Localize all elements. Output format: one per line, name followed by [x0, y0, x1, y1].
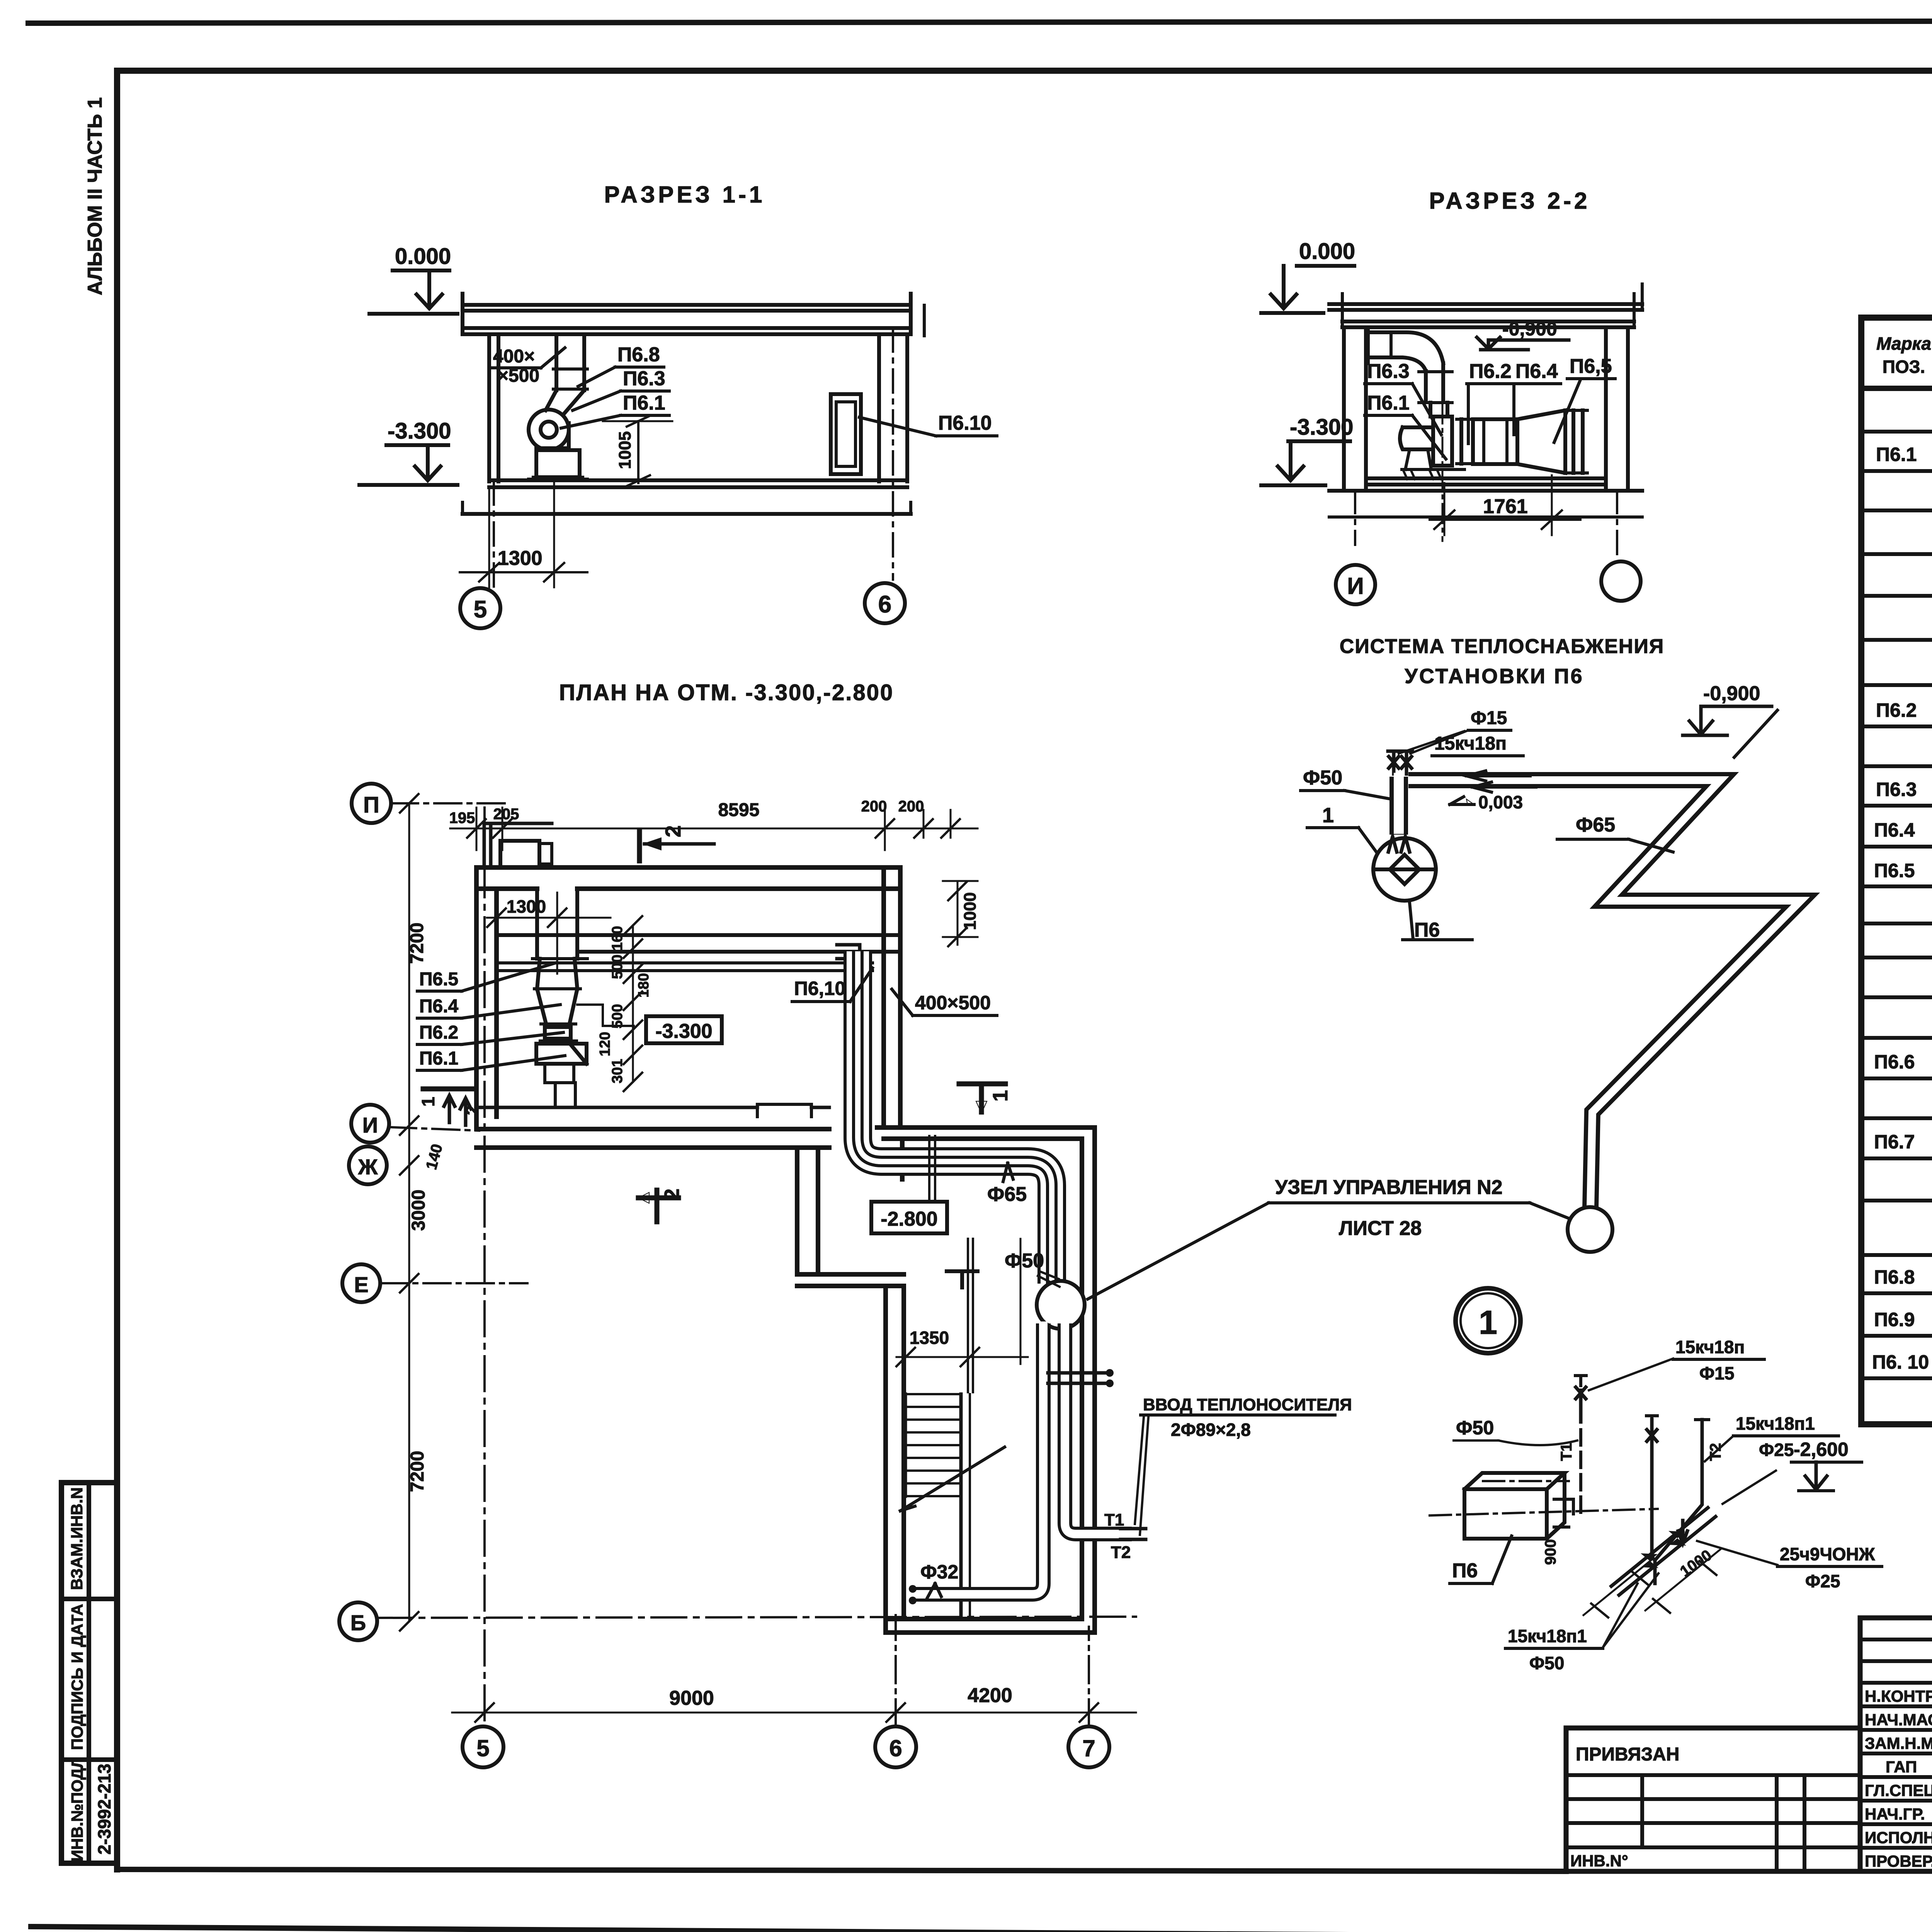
stair arrow — [900, 1447, 1005, 1511]
svg-text:ИСПОЛН.: ИСПОЛН. — [1865, 1828, 1932, 1847]
duct bundle down from machine room — [858, 951, 1052, 1284]
svg-text:Т1: Т1 — [1104, 1510, 1124, 1529]
ceiling slab (section 1-1) — [463, 294, 924, 336]
svg-text:Ф50: Ф50 — [1529, 1653, 1564, 1673]
svg-text:Ф50: Ф50 — [1303, 767, 1342, 789]
svg-text:6: 6 — [889, 1735, 902, 1761]
svg-text:Ф50: Ф50 — [1005, 1250, 1044, 1272]
ceiling slab (section 2-2) — [1329, 284, 1642, 327]
diagonal pipes with valves (detail) — [1611, 1508, 1716, 1595]
page top border — [28, 20, 1932, 23]
svg-text:П6: П6 — [1452, 1560, 1478, 1582]
left stamp box — [61, 1483, 117, 1863]
svg-text:-3.300: -3.300 — [655, 1020, 712, 1043]
axis Б line — [377, 1617, 1136, 1618]
svg-text:П6.3: П6.3 — [1367, 360, 1410, 383]
svg-text:1761: 1761 — [1483, 495, 1528, 518]
svg-text:200: 200 — [898, 798, 924, 815]
svg-text:П6.10: П6.10 — [938, 412, 992, 434]
svg-text:2-3992-213: 2-3992-213 — [94, 1764, 114, 1854]
svg-text:205: 205 — [493, 806, 519, 823]
axis Е line — [380, 1282, 527, 1284]
section mark 2 (bottom) — [638, 1190, 679, 1222]
signature table — [1860, 1618, 1932, 1871]
svg-text:0.000: 0.000 — [395, 244, 451, 269]
duct П6.8 (section 1-1) — [546, 334, 587, 413]
svg-text:П6: П6 — [1414, 919, 1440, 941]
left vertical dim line — [408, 803, 410, 1621]
svg-text:П6.9: П6.9 — [1874, 1309, 1915, 1330]
svg-text:1: 1 — [418, 1097, 438, 1107]
floor (section 2-2) — [1329, 478, 1642, 517]
svg-text:7: 7 — [1082, 1735, 1095, 1761]
svg-text:195: 195 — [449, 810, 475, 827]
svg-text:П6.4: П6.4 — [1874, 819, 1915, 841]
svg-text:И: И — [1347, 573, 1364, 599]
axis Е circle — [342, 1264, 380, 1302]
svg-text:1: 1 — [1322, 804, 1334, 827]
vertical pipes to node — [1389, 777, 1408, 835]
svg-text:ВВОД ТЕПЛОНОСИТЕЛЯ: ВВОД ТЕПЛОНОСИТЕЛЯ — [1143, 1395, 1352, 1414]
svg-text:П6.4: П6.4 — [1515, 360, 1558, 383]
elevation -3.300 (section 2-2) — [1261, 415, 1353, 485]
svg-text:ГАП: ГАП — [1886, 1758, 1917, 1776]
svg-text:П6.6: П6.6 — [1874, 1051, 1915, 1073]
axis circle И (section 2-2) — [1336, 565, 1375, 604]
duct 400x500 in machine room — [498, 935, 896, 971]
привязан table — [1566, 1728, 1860, 1871]
svg-text:3000: 3000 — [408, 1190, 429, 1231]
Г pipe right (detail) — [1655, 1420, 1702, 1560]
svg-text:2: 2 — [661, 825, 685, 837]
svg-text:-3.300: -3.300 — [1290, 415, 1353, 440]
fan assembly П6 (plan) — [532, 889, 811, 1117]
svg-text:1000: 1000 — [961, 892, 980, 930]
svg-text:НАЧ.ГР.: НАЧ.ГР. — [1865, 1805, 1925, 1823]
calorifer П6.4 (section 2-2) — [1473, 419, 1517, 464]
axis П line — [391, 802, 506, 804]
node circle П6 (schematic) — [1373, 838, 1436, 901]
svg-text:УСТАНОВКИ П6: УСТАНОВКИ П6 — [1405, 665, 1583, 688]
fan П6.1 (section 2-2) — [1400, 403, 1464, 479]
svg-text:1300: 1300 — [498, 547, 543, 570]
door П6.10 (plan) — [837, 945, 860, 959]
П6 box (axonometric) — [1464, 1473, 1565, 1539]
axis 6 dash — [895, 1615, 897, 1726]
svg-text:П6.1: П6.1 — [1876, 444, 1917, 465]
svg-text:Ж: Ж — [358, 1155, 378, 1179]
dim 1300 (section 1-1) — [460, 483, 587, 587]
detail marker circle 1 — [1456, 1288, 1520, 1353]
svg-text:П: П — [363, 793, 379, 818]
svg-text:500: 500 — [609, 954, 626, 979]
svg-text:П6.7: П6.7 — [1874, 1131, 1915, 1153]
right wall (section 1-1) — [879, 334, 907, 481]
svg-text:П6.8: П6.8 — [617, 344, 660, 366]
left wall (section 1-1) — [489, 334, 498, 481]
axis circle 5 (plan) — [463, 1726, 503, 1767]
axis П circle — [352, 784, 391, 823]
svg-text:0.000: 0.000 — [1299, 239, 1355, 264]
svg-text:П6.2: П6.2 — [419, 1022, 458, 1043]
pipe break mark — [1734, 710, 1777, 757]
svg-text:Т1: Т1 — [1558, 1443, 1575, 1461]
axis circle 5 (section 1-1) — [460, 588, 500, 628]
svg-text:15кч18п: 15кч18п — [1675, 1337, 1745, 1357]
axis 7 dash — [1088, 1627, 1090, 1726]
svg-text:П6.1: П6.1 — [623, 392, 665, 414]
svg-text:301: 301 — [609, 1059, 626, 1083]
svg-text:П6.3: П6.3 — [623, 367, 665, 390]
svg-text:П6.3: П6.3 — [1876, 779, 1917, 800]
svg-text:15кч18п1: 15кч18п1 — [1508, 1626, 1587, 1646]
machine room walls — [476, 867, 900, 1148]
axis 5 dash (section 1-1) — [493, 481, 495, 588]
valve on Т1 (detail) — [1575, 1376, 1586, 1386]
svg-text:ПРИВЯЗАН: ПРИВЯЗАН — [1576, 1744, 1679, 1765]
axis dashes (section 2-2) — [1354, 490, 1356, 545]
svg-text:Е: Е — [354, 1272, 368, 1297]
level box -2.800 — [871, 1202, 947, 1233]
roof shaft (plan top) — [484, 823, 552, 867]
section mark 2 (top) — [637, 832, 642, 861]
heat pipes T1 T2 from node down — [909, 1321, 1133, 1604]
svg-text:2: 2 — [462, 1105, 482, 1115]
svg-text:РАЗРЕЗ 2-2: РАЗРЕЗ 2-2 — [1429, 188, 1590, 214]
svg-text:1: 1 — [1479, 1304, 1497, 1341]
node circle (plan) — [1037, 1281, 1085, 1329]
svg-text:П6.8: П6.8 — [1874, 1266, 1915, 1288]
svg-text:Ф15: Ф15 — [1471, 708, 1507, 728]
svg-text:2: 2 — [660, 1189, 684, 1200]
svg-text:4200: 4200 — [968, 1684, 1012, 1707]
svg-text:П6.2: П6.2 — [1469, 360, 1512, 383]
svg-text:П6,10: П6,10 — [794, 978, 845, 999]
svg-text:400×500: 400×500 — [915, 992, 991, 1014]
svg-text:120: 120 — [597, 1032, 613, 1056]
svg-text:2Ф89×2,8: 2Ф89×2,8 — [1171, 1420, 1251, 1440]
top dimension line — [450, 828, 978, 830]
floor (section 1-1) — [463, 480, 911, 514]
svg-text:7200: 7200 — [407, 923, 427, 964]
svg-text:25ч9ЧОНЖ: 25ч9ЧОНЖ — [1780, 1544, 1875, 1564]
svg-text:ВЗАМ.ИНВ.N: ВЗАМ.ИНВ.N — [68, 1487, 86, 1590]
zigzag pipe Ф65 (double line) — [1408, 780, 1801, 1208]
section mark 1 (corridor top) — [959, 1084, 1005, 1112]
svg-text:П6.4: П6.4 — [419, 996, 459, 1017]
bottom dim line — [452, 1712, 1136, 1714]
svg-text:ПРОВЕР.: ПРОВЕР. — [1865, 1852, 1932, 1870]
svg-text:Марка: Марка — [1876, 333, 1931, 354]
svg-text:ГЛ.СПЕЦ.: ГЛ.СПЕЦ. — [1865, 1781, 1932, 1799]
flexible insert П6.2 (section 2-2) — [1461, 419, 1473, 464]
dim 1761 (section 2-2) — [1430, 475, 1580, 535]
svg-text:Б: Б — [350, 1611, 366, 1635]
axis Ж circle — [349, 1146, 387, 1184]
arrow on top pipe — [1466, 771, 1530, 781]
section mark 1 (small, mid) — [947, 1271, 978, 1287]
svg-text:200: 200 — [861, 798, 887, 815]
damper П6.5 (section 2-2) — [1573, 410, 1583, 473]
section mark 1 (left, machine room) — [423, 1087, 472, 1092]
svg-text:-2.800: -2.800 — [881, 1208, 937, 1230]
svg-text:-0,900: -0,900 — [1703, 682, 1760, 705]
svg-text:ИНВ.№ПОДЛ: ИНВ.№ПОДЛ — [68, 1757, 86, 1861]
dim 1000 (plan right) — [957, 883, 959, 945]
stair upper rail — [968, 1239, 973, 1392]
svg-text:П6. 10: П6. 10 — [1872, 1351, 1929, 1373]
svg-text:П6,5: П6,5 — [1570, 355, 1612, 378]
svg-text:ПОЗ.: ПОЗ. — [1883, 357, 1925, 377]
svg-text:900: 900 — [1542, 1539, 1559, 1565]
svg-text:П6.1: П6.1 — [419, 1048, 458, 1069]
door П6.10 (section 1-1) — [831, 394, 861, 474]
svg-text:1350: 1350 — [910, 1328, 949, 1348]
elevation 0.000 (section 1-1) — [369, 244, 457, 314]
axis 5 vertical dash — [483, 808, 486, 1726]
left column (section 2-2) — [1344, 327, 1366, 490]
frame bottom line — [117, 1869, 1566, 1871]
svg-text:П6.2: П6.2 — [1876, 699, 1917, 721]
svg-text:7200: 7200 — [407, 1451, 428, 1492]
stair treads — [905, 1394, 970, 1619]
svg-text:Ф25: Ф25 — [1805, 1571, 1840, 1591]
svg-text:5: 5 — [476, 1735, 489, 1761]
svg-text:-0,900: -0,900 — [1502, 318, 1557, 340]
svg-text:УЗЕЛ УПРАВЛЕНИЯ N2: УЗЕЛ УПРАВЛЕНИЯ N2 — [1275, 1176, 1503, 1199]
axis circle right (section 2-2) — [1601, 561, 1641, 601]
svg-text:-3.300: -3.300 — [388, 418, 451, 444]
spec table grid — [1861, 318, 1932, 1424]
level box -3.300 — [646, 1016, 722, 1043]
right column (section 2-2) — [1606, 327, 1628, 490]
elbow duct 400x500 (section 2-2) — [1368, 327, 1452, 403]
svg-text:0,003: 0,003 — [1478, 792, 1523, 812]
dim 900 (detail) — [1583, 1558, 1654, 1615]
fan П6.1 (section 1-1) — [529, 410, 587, 480]
svg-text:ПОДПИСЬ И ДАТА: ПОДПИСЬ И ДАТА — [68, 1604, 86, 1750]
svg-text:Ф15: Ф15 — [1699, 1363, 1734, 1383]
dash-dot connection lines — [1430, 1509, 1658, 1515]
svg-text:ИНВ.N°: ИНВ.N° — [1570, 1852, 1628, 1870]
svg-text:Н.КОНТР.: Н.КОНТР. — [1865, 1687, 1932, 1705]
svg-text:1: 1 — [989, 1090, 1012, 1102]
axis И circle — [351, 1105, 389, 1143]
valve 15кч18п (left pair on schematic) — [1388, 751, 1412, 774]
svg-text:ЗАМ.Н.М: ЗАМ.Н.М — [1865, 1734, 1932, 1752]
svg-text:15кч18п1: 15кч18п1 — [1736, 1413, 1815, 1434]
svg-text:РАЗРЕЗ 1-1: РАЗРЕЗ 1-1 — [604, 182, 765, 207]
axis Б circle — [339, 1602, 377, 1640]
svg-text:9000: 9000 — [669, 1687, 714, 1709]
pipe Т1 vertical (detail) — [1579, 1390, 1583, 1422]
svg-text:5: 5 — [474, 596, 487, 623]
svg-text:НАЧ.МАС: НАЧ.МАС — [1865, 1711, 1932, 1729]
svg-text:ПЛАН НА ОТМ. -3.300,-2.800: ПЛАН НА ОТМ. -3.300,-2.800 — [559, 680, 894, 705]
svg-text:6: 6 — [878, 591, 891, 618]
svg-text:Ф65: Ф65 — [1576, 814, 1615, 836]
svg-text:8595: 8595 — [718, 800, 760, 820]
riser cross ticks — [929, 1136, 935, 1200]
small dims column (plan) — [632, 925, 634, 1082]
svg-text:ЛИСТ 28: ЛИСТ 28 — [1339, 1217, 1422, 1240]
axis И line — [389, 1127, 479, 1131]
svg-text:160: 160 — [609, 926, 626, 950]
corridor walls — [797, 1128, 1095, 1633]
flow arrows up — [1388, 837, 1410, 852]
elevation -0.900 (section 2-2) — [1477, 318, 1569, 350]
pipe Т2 vertical (detail) — [1650, 1420, 1654, 1557]
svg-text:1005: 1005 — [616, 431, 634, 469]
elevation -3.300 (section 1-1) — [359, 418, 457, 485]
svg-text:180: 180 — [636, 973, 652, 997]
svg-text:П6.1: П6.1 — [1367, 392, 1410, 414]
svg-text:П6.5: П6.5 — [419, 969, 458, 990]
axis circle 6 (plan) — [875, 1726, 916, 1767]
transition П6.7 (section 2-2) — [1517, 410, 1565, 473]
svg-text:П6.5: П6.5 — [1874, 860, 1915, 881]
axis circle 7 (plan) — [1068, 1726, 1109, 1767]
svg-text:400×: 400× — [493, 346, 535, 367]
svg-text:И: И — [362, 1113, 378, 1137]
dim 1005 (section 1-1) — [603, 416, 672, 486]
svg-text:Ф50: Ф50 — [1456, 1417, 1494, 1439]
axis circle 6 (section 1-1) — [865, 583, 905, 623]
svg-text:СИСТЕМА ТЕПЛОСНАБЖЕНИЯ: СИСТЕМА ТЕПЛОСНАБЖЕНИЯ — [1340, 635, 1664, 658]
right wall axis dash — [892, 328, 894, 580]
node circle lower (schematic) — [1568, 1207, 1612, 1252]
page bottom outer border — [31, 1927, 1932, 1932]
fan center dash (section 2-2) — [1442, 371, 1444, 541]
dim 1000 (detail) — [1645, 1549, 1720, 1611]
svg-text:-2,600: -2,600 — [1794, 1439, 1849, 1460]
svg-text:Ф32: Ф32 — [920, 1561, 958, 1583]
svg-text:Т2: Т2 — [1111, 1543, 1131, 1562]
svg-text:Ф25: Ф25 — [1759, 1440, 1794, 1460]
svg-text:1300: 1300 — [507, 896, 546, 917]
svg-text:АЛЬБОМ II ЧАСТЬ 1: АЛЬБОМ II ЧАСТЬ 1 — [84, 97, 106, 296]
elevation 0.000 (section 2-2) — [1261, 239, 1355, 313]
svg-text:Ф65: Ф65 — [987, 1183, 1027, 1206]
